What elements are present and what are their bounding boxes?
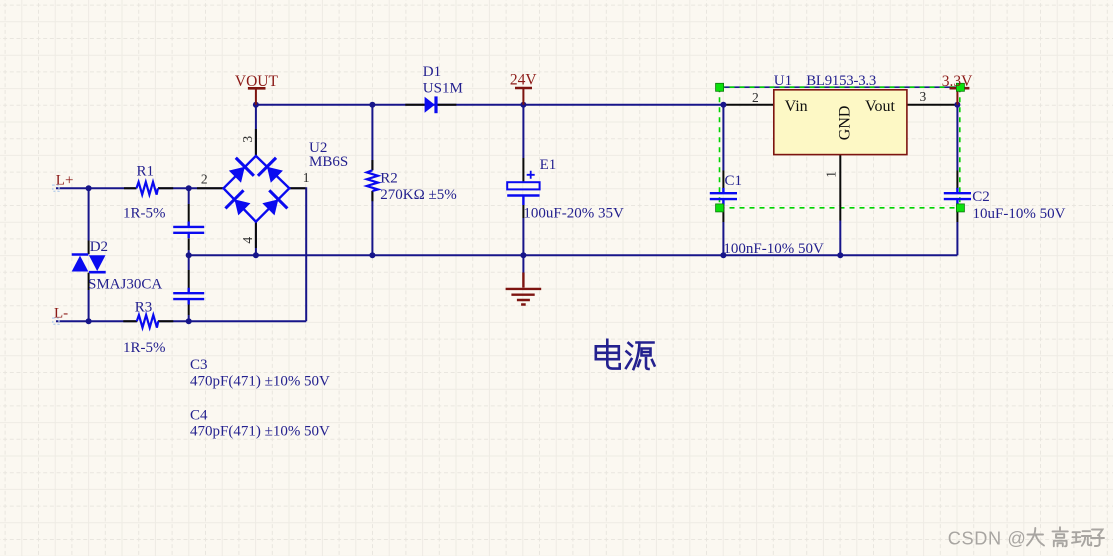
svg-text:R1: R1 bbox=[137, 163, 155, 179]
svg-text:10uF-10% 50V: 10uF-10% 50V bbox=[973, 206, 1066, 222]
svg-text:CSDN @: CSDN @ bbox=[948, 529, 1027, 549]
svg-text:R3: R3 bbox=[135, 300, 153, 316]
svg-text:GND: GND bbox=[837, 106, 854, 141]
capacitor C1 bbox=[710, 188, 737, 205]
capacitor C4 bbox=[173, 288, 204, 305]
svg-text:C4: C4 bbox=[190, 407, 208, 423]
svg-text:Vin: Vin bbox=[785, 98, 808, 115]
pin stubs C1 bbox=[722, 171, 724, 223]
svg-text:US1M: US1M bbox=[423, 81, 463, 97]
svg-text:100nF-10% 50V: 100nF-10% 50V bbox=[723, 241, 824, 257]
svg-text:1: 1 bbox=[823, 171, 838, 178]
svg-text:1R-5%: 1R-5% bbox=[123, 340, 166, 356]
U2 diode top-right bbox=[258, 158, 286, 186]
svg-text:SMAJ30CA: SMAJ30CA bbox=[88, 276, 162, 292]
pin stubs C3 bbox=[188, 204, 190, 250]
svg-text:2: 2 bbox=[201, 172, 208, 187]
svg-text:470pF(471) ±10% 50V: 470pF(471) ±10% 50V bbox=[190, 374, 330, 390]
hotspot marker at L- wire end bbox=[53, 318, 59, 324]
svg-text:VOUT: VOUT bbox=[235, 73, 279, 90]
wire: C1 column vertical bbox=[722, 105, 724, 255]
resistor R3 bbox=[137, 315, 159, 328]
pin stubs bridge U2 bbox=[197, 129, 306, 248]
svg-text:3: 3 bbox=[920, 89, 927, 104]
svg-text:D2: D2 bbox=[90, 239, 108, 255]
bridge rectifier U2 bbox=[224, 156, 290, 222]
svg-text:U1: U1 bbox=[774, 73, 792, 89]
svg-text:3: 3 bbox=[240, 136, 255, 143]
wire: top rail VOUT/24V net y=104.8 bbox=[256, 104, 724, 106]
svg-text:100uF-20% 35V: 100uF-20% 35V bbox=[523, 205, 624, 221]
wire: E1 column vertical bbox=[522, 105, 524, 255]
selection handle top-right bbox=[956, 83, 964, 91]
wire: VOUT vertical to bridge pin 3 bbox=[255, 105, 257, 156]
op-amp/regulator U1 body bbox=[774, 90, 907, 155]
wire: L+ rail from terminal to R1 bbox=[56, 187, 137, 189]
wire: D2 column vertical bbox=[88, 188, 90, 321]
pin stubs R3 bbox=[123, 320, 173, 322]
wire: C3/C4 column vertical bbox=[188, 188, 190, 321]
wire: R2 column vertical bbox=[371, 105, 373, 255]
wire: C2 column vertical from 3.3V junction bbox=[956, 105, 958, 255]
pin stubs U1 bbox=[723, 105, 957, 221]
svg-text:C3: C3 bbox=[190, 357, 208, 373]
svg-text:MB6S: MB6S bbox=[309, 154, 348, 170]
wire: ground stem from rail bbox=[522, 255, 524, 273]
svg-text:D1: D1 bbox=[423, 64, 441, 80]
ground symbol bbox=[506, 273, 542, 305]
wire: bridge pin 4 vertical to ground rail bbox=[255, 221, 257, 255]
pin stubs C4 bbox=[188, 270, 190, 315]
svg-text:E1: E1 bbox=[540, 157, 557, 173]
TVS diode D2 (bidirectional) bbox=[72, 255, 106, 273]
selection handle bottom-left bbox=[716, 204, 724, 212]
U2 diode top-left bbox=[226, 158, 254, 186]
svg-text:2: 2 bbox=[752, 90, 759, 105]
svg-text:3.3V: 3.3V bbox=[942, 73, 973, 90]
svg-text:C2: C2 bbox=[972, 189, 990, 205]
svg-text:470pF(471) ±10% 50V: 470pF(471) ±10% 50V bbox=[190, 423, 330, 439]
capacitor E1 (polarized) bbox=[507, 171, 539, 205]
svg-text:1R-5%: 1R-5% bbox=[123, 206, 166, 222]
svg-text:L-: L- bbox=[54, 305, 68, 321]
svg-text:BL9153-3.3: BL9153-3.3 bbox=[806, 73, 876, 89]
diode D1 bbox=[425, 96, 436, 113]
pin stubs E1 bbox=[522, 158, 524, 218]
power port 24V (bar) bbox=[515, 88, 532, 105]
capacitor C2 bbox=[944, 188, 971, 205]
pin stubs R2 bbox=[371, 160, 373, 201]
svg-text:C1: C1 bbox=[725, 173, 743, 189]
svg-text:1: 1 bbox=[303, 170, 310, 185]
wire: R1 to bridge pin 2 bbox=[158, 187, 224, 189]
U2 diode bottom-left bbox=[225, 190, 253, 218]
power port 3.3V (bar) bbox=[950, 88, 970, 105]
wire: bridge pin 1 down to L- rail bbox=[290, 188, 307, 321]
selection box around C1/C2 (green dashed marquee) bbox=[720, 87, 960, 208]
pin stubs D1 bbox=[405, 104, 456, 106]
pin stubs R1 bbox=[124, 187, 173, 189]
svg-text:R2: R2 bbox=[380, 170, 398, 186]
pin stubs C2 bbox=[956, 171, 958, 223]
power port VOUT (bar) bbox=[248, 88, 266, 105]
selection handle bottom-right bbox=[956, 204, 964, 212]
title text 电源 (Chinese, drawn) bbox=[596, 340, 655, 369]
svg-text:4: 4 bbox=[240, 237, 255, 244]
svg-text:270KΩ ±5%: 270KΩ ±5% bbox=[380, 187, 456, 203]
wire: ground rail y=255.2 bbox=[189, 254, 958, 256]
pin stubs D2 bbox=[88, 241, 90, 291]
svg-text:24V: 24V bbox=[510, 72, 538, 89]
svg-text:L+: L+ bbox=[56, 172, 74, 188]
U2 diode bottom-right bbox=[259, 190, 287, 218]
wire: U1 GND pin to ground rail bbox=[839, 221, 841, 256]
wire: L- rail bbox=[56, 320, 306, 322]
hotspot marker at L+ wire end bbox=[53, 185, 59, 191]
selection handle top-left bbox=[716, 83, 724, 91]
resistor R2 bbox=[367, 170, 378, 191]
svg-text:Vout: Vout bbox=[865, 98, 895, 115]
resistor R1 bbox=[136, 182, 158, 195]
watermark 大高玩子 (drawn) bbox=[1027, 527, 1104, 546]
capacitor C3 bbox=[173, 222, 204, 239]
